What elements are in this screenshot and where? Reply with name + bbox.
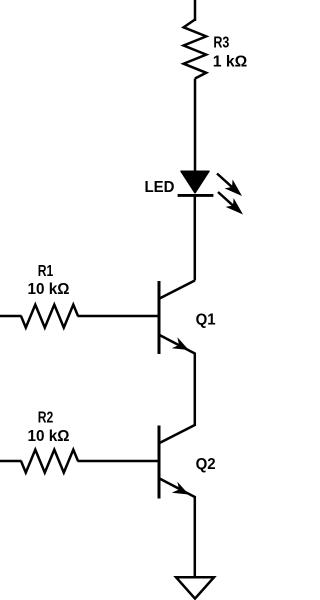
svg-text:Q1: Q1 (196, 312, 216, 329)
svg-text:R3: R3 (213, 35, 229, 52)
svg-text:LED: LED (145, 179, 175, 196)
svg-text:1 kΩ: 1 kΩ (213, 54, 247, 71)
resistor R3 (184, 20, 207, 79)
wire: R2 to Q2 base (78, 460, 159, 463)
resistor R1 (21, 305, 78, 328)
wire: Q1 emitter to Q2 collector (194, 353, 197, 427)
wire: Q2 base input rail (0, 460, 22, 463)
wire: R3 to LED anode (194, 79, 197, 173)
LED light arrow 2 (218, 192, 243, 215)
svg-text:R1: R1 (38, 263, 54, 280)
transistor Q1 (159, 281, 195, 355)
svg-text:Q2: Q2 (196, 456, 216, 473)
wire: LED cathode to Q1 collector (194, 195, 197, 281)
resistor R2 (21, 450, 78, 473)
LED D1 cathode bar (178, 194, 214, 197)
wire: top supply lead (194, 0, 197, 21)
wire: R1 to Q1 base (78, 315, 159, 318)
transistor Q2 (159, 425, 195, 499)
svg-text:R2: R2 (38, 410, 54, 427)
wire: Q2 emitter to ground (194, 496, 197, 578)
LED D1 anode triangle (181, 171, 209, 193)
LED light arrow 1 (217, 174, 242, 197)
svg-text:10 kΩ: 10 kΩ (28, 428, 70, 445)
wire: Q1 base input rail (0, 315, 22, 318)
ground (176, 577, 214, 598)
svg-text:10 kΩ: 10 kΩ (28, 281, 70, 298)
